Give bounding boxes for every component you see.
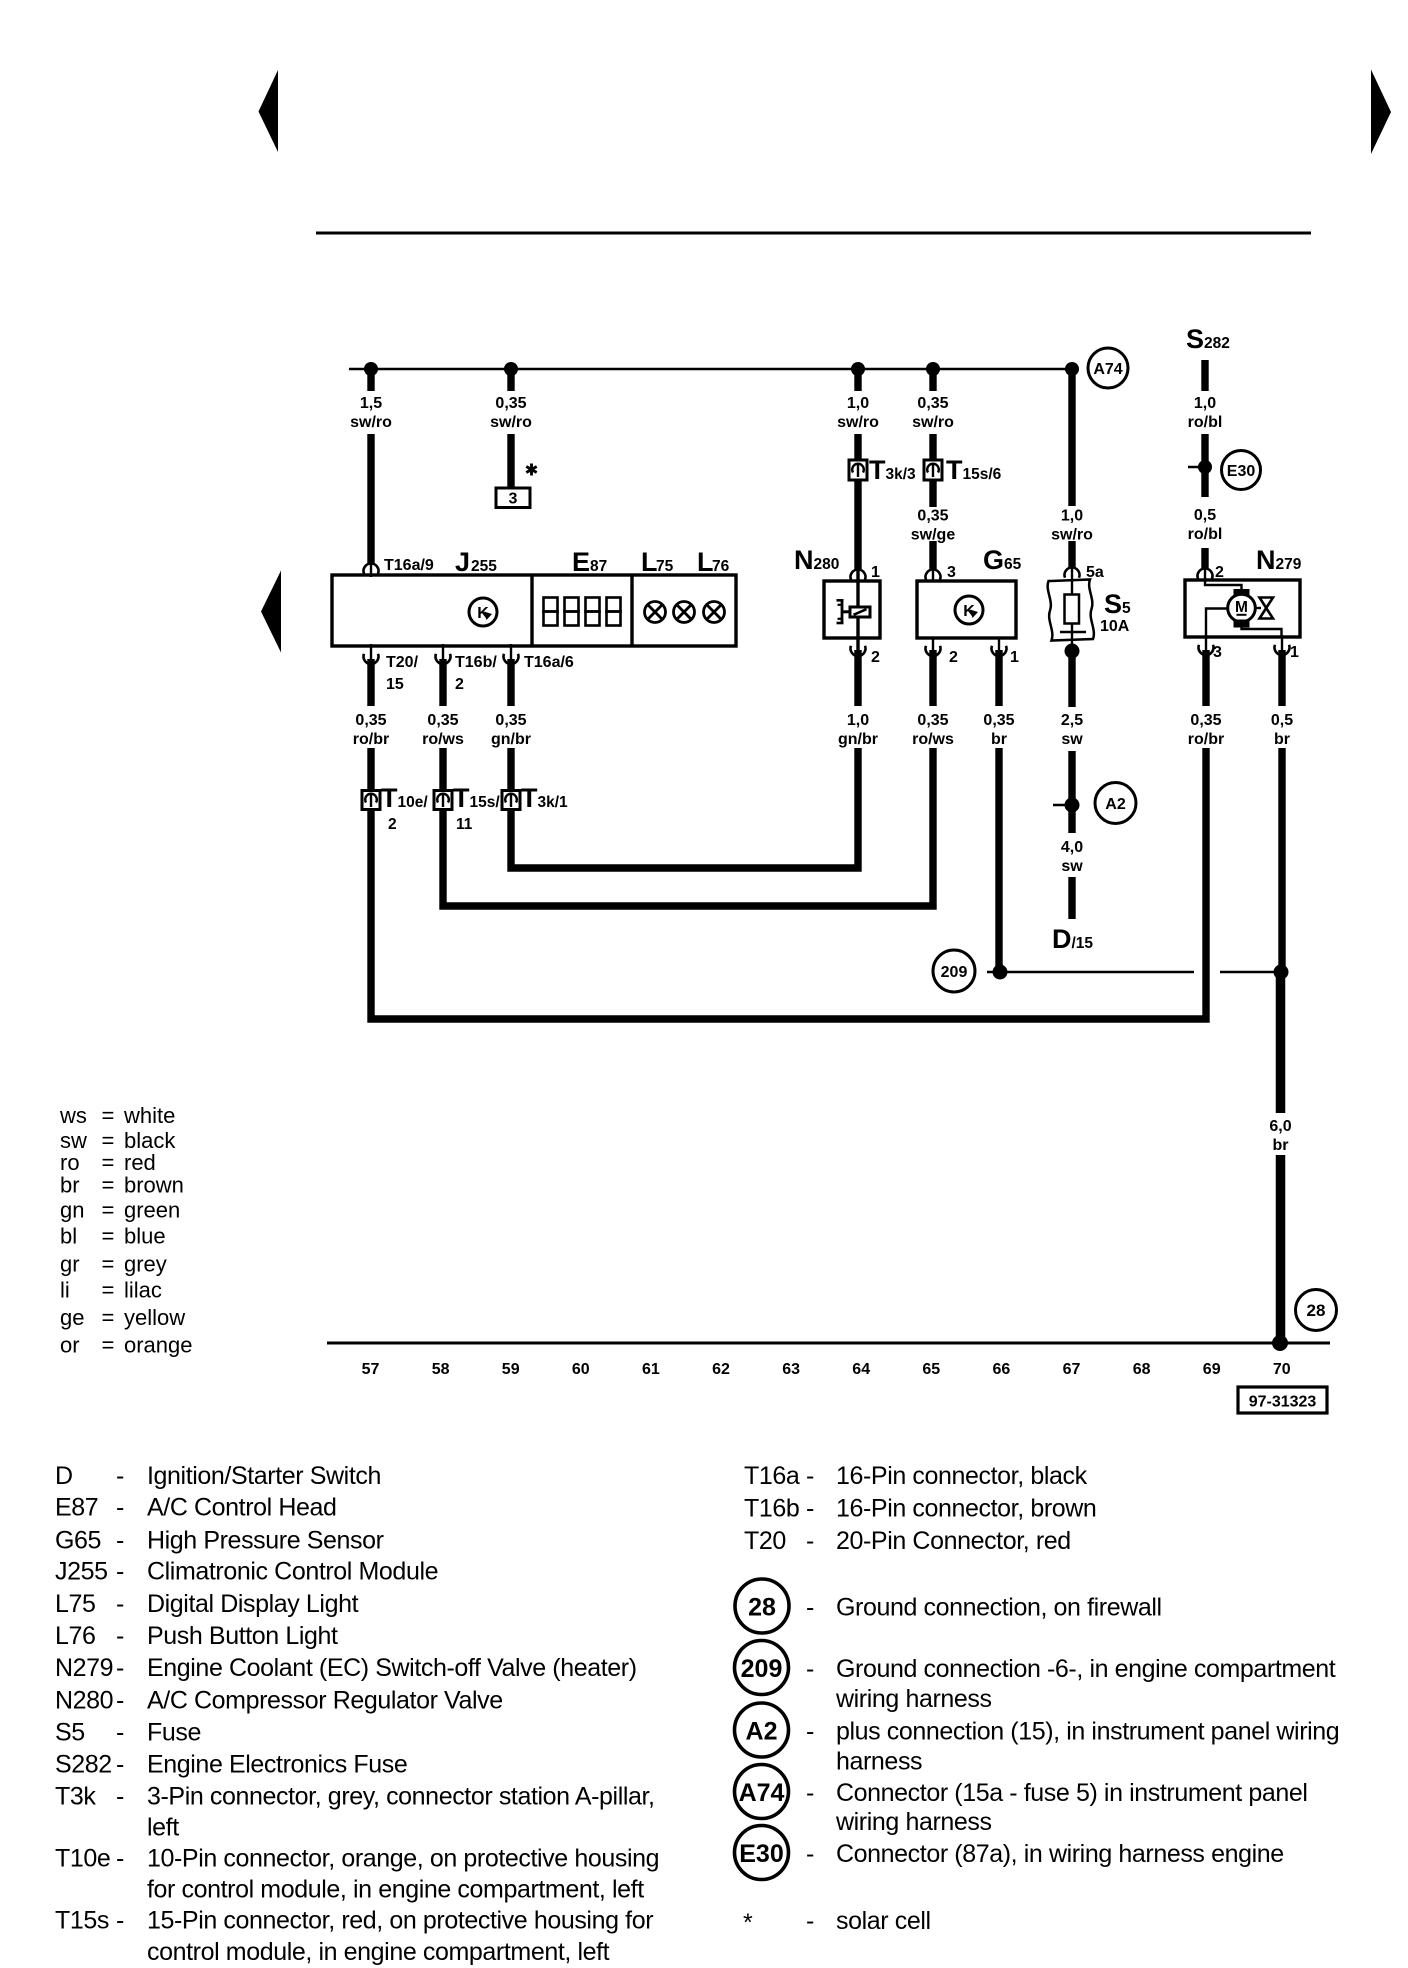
svg-text:Connector (15a - fuse 5) in in: Connector (15a - fuse 5) in instrument p… (836, 1779, 1308, 1807)
svg-text:br: br (1274, 731, 1290, 748)
svg-text:64: 64 (852, 1361, 870, 1378)
svg-text:sw: sw (1061, 858, 1083, 875)
svg-text:70: 70 (1273, 1361, 1291, 1378)
svg-text:white: white (123, 1103, 175, 1128)
svg-text:S5: S5 (55, 1719, 85, 1747)
svg-text:60: 60 (572, 1361, 590, 1378)
svg-text:A/C Control Head: A/C Control Head (147, 1494, 337, 1522)
svg-text:-: - (116, 1654, 124, 1682)
svg-text:63: 63 (782, 1361, 800, 1378)
svg-text:58: 58 (432, 1361, 450, 1378)
svg-text:control module, in engine comp: control module, in engine compartment, l… (147, 1938, 610, 1966)
svg-text:T10e: T10e (55, 1845, 110, 1873)
svg-text:16-Pin connector, brown: 16-Pin connector, brown (836, 1495, 1096, 1523)
svg-text:sw: sw (1061, 731, 1083, 748)
svg-text:6,0: 6,0 (1269, 1118, 1291, 1135)
svg-text:gn: gn (60, 1198, 84, 1223)
svg-text:2: 2 (388, 816, 397, 833)
svg-text:-: - (116, 1622, 124, 1650)
svg-text:L75: L75 (55, 1590, 96, 1618)
svg-text:S: S (1186, 324, 1204, 354)
svg-text:57: 57 (362, 1361, 380, 1378)
svg-text:28: 28 (748, 1594, 776, 1622)
svg-text:5: 5 (1122, 600, 1131, 617)
svg-text:3k/1: 3k/1 (538, 794, 569, 811)
svg-text:15s/6: 15s/6 (963, 466, 1002, 483)
svg-text:68: 68 (1133, 1361, 1151, 1378)
svg-text:=: = (102, 1252, 115, 1277)
svg-text:T: T (453, 783, 470, 813)
svg-text:ge: ge (60, 1305, 84, 1330)
svg-text:lilac: lilac (124, 1278, 162, 1303)
svg-text:G65: G65 (55, 1527, 101, 1555)
svg-text:Climatronic Control Module: Climatronic Control Module (147, 1558, 438, 1586)
svg-text:D: D (55, 1462, 73, 1490)
svg-text:280: 280 (814, 556, 840, 573)
svg-text:A74: A74 (1093, 361, 1122, 378)
svg-text:T: T (521, 783, 538, 813)
svg-text:28: 28 (1307, 1301, 1326, 1320)
svg-text:-: - (116, 1558, 124, 1586)
svg-text:N279: N279 (55, 1654, 113, 1682)
svg-text:=: = (102, 1278, 115, 1303)
svg-text:bl: bl (60, 1224, 77, 1249)
svg-text:ro/ws: ro/ws (422, 731, 464, 748)
svg-text:-: - (116, 1845, 124, 1873)
svg-text:3k/3: 3k/3 (886, 466, 917, 483)
svg-text:S282: S282 (55, 1751, 112, 1779)
svg-text:209: 209 (941, 964, 968, 981)
svg-text:T16a/6: T16a/6 (524, 654, 574, 671)
svg-text:E: E (572, 547, 590, 577)
svg-text:gr: gr (60, 1252, 80, 1277)
svg-text:T15s: T15s (55, 1907, 109, 1935)
svg-text:ro: ro (60, 1150, 80, 1175)
svg-text:sw/ro: sw/ro (912, 414, 954, 431)
svg-text:67: 67 (1063, 1361, 1081, 1378)
svg-text:sw/ro: sw/ro (490, 414, 532, 431)
svg-text:0,5: 0,5 (1271, 712, 1293, 729)
svg-text:-: - (116, 1751, 124, 1779)
svg-text:or: or (60, 1333, 80, 1358)
svg-text:-: - (806, 1462, 814, 1490)
svg-text:Connector (87a), in wiring har: Connector (87a), in wiring harness engin… (836, 1840, 1284, 1868)
svg-text:=: = (102, 1305, 115, 1330)
svg-text:75: 75 (656, 558, 674, 575)
svg-text:66: 66 (993, 1361, 1011, 1378)
svg-text:Digital Display Light: Digital Display Light (147, 1590, 359, 1618)
svg-text:M: M (1235, 599, 1248, 616)
svg-text:=: = (102, 1173, 115, 1198)
svg-text:E30: E30 (739, 1840, 783, 1868)
svg-text:10-Pin connector, orange, on p: 10-Pin connector, orange, on protective … (147, 1845, 659, 1873)
svg-text:grey: grey (124, 1252, 167, 1277)
svg-text:=: = (102, 1224, 115, 1249)
svg-text:=: = (102, 1333, 115, 1358)
svg-text:plus connection (15), in instr: plus connection (15), in instrument pane… (836, 1718, 1339, 1746)
svg-text:5a: 5a (1086, 564, 1104, 581)
svg-text:-: - (116, 1590, 124, 1618)
svg-text:J: J (455, 547, 470, 577)
svg-text:ro/bl: ro/bl (1188, 526, 1223, 543)
svg-text:T3k: T3k (55, 1783, 96, 1811)
svg-text:A2: A2 (1105, 796, 1126, 813)
svg-text:=: = (102, 1150, 115, 1175)
svg-text:J255: J255 (55, 1558, 108, 1586)
svg-text:br: br (1273, 1137, 1289, 1154)
svg-text:16-Pin connector, black: 16-Pin connector, black (836, 1462, 1088, 1490)
svg-text:1,0: 1,0 (847, 395, 869, 412)
svg-text:gn/br: gn/br (491, 731, 531, 748)
svg-text:-: - (806, 1527, 814, 1555)
svg-text:-: - (806, 1779, 814, 1807)
svg-text:sw/ro: sw/ro (837, 414, 879, 431)
svg-text:N: N (794, 545, 814, 575)
svg-text:209: 209 (741, 1655, 783, 1683)
svg-text:solar cell: solar cell (836, 1907, 931, 1935)
svg-text:2,5: 2,5 (1061, 712, 1083, 729)
svg-text:-: - (806, 1718, 814, 1746)
svg-text:15s/: 15s/ (470, 794, 501, 811)
svg-text:87: 87 (590, 558, 607, 575)
svg-text:1: 1 (1290, 644, 1299, 661)
svg-text:T: T (869, 455, 886, 485)
svg-text:E87: E87 (55, 1494, 98, 1522)
svg-text:2: 2 (871, 649, 880, 666)
svg-text:T16b: T16b (744, 1495, 799, 1523)
svg-text:T16b/: T16b/ (455, 654, 497, 671)
svg-text:62: 62 (712, 1361, 730, 1378)
svg-text:20-Pin Connector, red: 20-Pin Connector, red (836, 1527, 1071, 1555)
svg-text:3: 3 (947, 564, 956, 581)
svg-text:2: 2 (1215, 564, 1224, 581)
svg-text:3: 3 (509, 491, 518, 508)
svg-text:65: 65 (922, 1361, 940, 1378)
svg-text:Push Button Light: Push Button Light (147, 1622, 338, 1650)
svg-text:65: 65 (1004, 556, 1022, 573)
svg-text:-: - (116, 1527, 124, 1555)
svg-text:1,0: 1,0 (847, 712, 869, 729)
svg-text:-: - (116, 1687, 124, 1715)
svg-text:Ground connection -6-, in engi: Ground connection -6-, in engine compart… (836, 1655, 1336, 1683)
svg-text:E30: E30 (1227, 463, 1256, 480)
svg-text:0,35: 0,35 (495, 395, 526, 412)
svg-text:0,5: 0,5 (1194, 507, 1216, 524)
svg-text:br: br (991, 731, 1007, 748)
svg-text:A2: A2 (746, 1718, 778, 1746)
svg-text:10e/: 10e/ (398, 794, 429, 811)
svg-text:Ignition/Starter Switch: Ignition/Starter Switch (147, 1462, 381, 1490)
svg-text:T: T (381, 783, 398, 813)
svg-text:G: G (983, 545, 1004, 575)
svg-text:2: 2 (949, 649, 958, 666)
svg-text:97-31323: 97-31323 (1249, 1394, 1317, 1411)
svg-text:282: 282 (1204, 335, 1230, 352)
svg-text:T16a/9: T16a/9 (384, 557, 434, 574)
svg-text:Engine Coolant (EC) Switch-off: Engine Coolant (EC) Switch-off Valve (he… (147, 1654, 637, 1682)
svg-text:orange: orange (124, 1333, 193, 1358)
svg-text:T20/: T20/ (386, 654, 419, 671)
svg-text:-: - (116, 1462, 124, 1490)
svg-text:-: - (806, 1840, 814, 1868)
svg-text:0,35: 0,35 (1190, 712, 1221, 729)
svg-text:Ground connection, on firewall: Ground connection, on firewall (836, 1594, 1162, 1622)
svg-text:1,0: 1,0 (1061, 508, 1083, 525)
svg-text:wiring harness: wiring harness (835, 1685, 992, 1713)
svg-text:59: 59 (502, 1361, 520, 1378)
svg-text:brown: brown (124, 1173, 184, 1198)
svg-text:1: 1 (871, 564, 880, 581)
svg-text:S: S (1104, 589, 1122, 619)
svg-text:0,35: 0,35 (917, 395, 948, 412)
svg-text:0,35: 0,35 (495, 712, 526, 729)
svg-text:L76: L76 (55, 1622, 96, 1650)
svg-text:0,35: 0,35 (917, 712, 948, 729)
svg-text:br: br (60, 1173, 80, 1198)
svg-text:/15: /15 (1072, 935, 1094, 952)
svg-text:76: 76 (712, 558, 730, 575)
svg-text:255: 255 (471, 558, 497, 575)
svg-text:left: left (147, 1814, 179, 1842)
svg-text:-: - (806, 1495, 814, 1523)
svg-text:D: D (1052, 924, 1072, 954)
svg-text:li: li (60, 1278, 70, 1303)
svg-text:10A: 10A (1100, 618, 1130, 635)
svg-text:1,5: 1,5 (360, 395, 382, 412)
svg-text:-: - (806, 1907, 814, 1935)
svg-text:15-Pin connector, red, on prot: 15-Pin connector, red, on protective hou… (147, 1907, 653, 1935)
svg-text:-: - (116, 1907, 124, 1935)
svg-text:15: 15 (386, 676, 404, 693)
svg-text:Engine Electronics Fuse: Engine Electronics Fuse (147, 1751, 407, 1779)
svg-text:sw/ro: sw/ro (1051, 527, 1093, 544)
svg-text:2: 2 (455, 676, 464, 693)
svg-text:High Pressure Sensor: High Pressure Sensor (147, 1527, 384, 1555)
svg-text:ro/ws: ro/ws (912, 731, 954, 748)
svg-text:1: 1 (1010, 649, 1019, 666)
svg-text:ro/br: ro/br (353, 731, 389, 748)
svg-text:ro/bl: ro/bl (1188, 414, 1223, 431)
svg-text:gn/br: gn/br (838, 731, 878, 748)
svg-text:3-Pin connector, grey, connect: 3-Pin connector, grey, connector station… (147, 1783, 655, 1811)
svg-text:A/C Compressor Regulator Valve: A/C Compressor Regulator Valve (147, 1687, 503, 1715)
svg-text:=: = (102, 1198, 115, 1223)
svg-text:yellow: yellow (124, 1305, 185, 1330)
svg-text:61: 61 (642, 1361, 660, 1378)
svg-text:-: - (806, 1655, 814, 1683)
svg-text:69: 69 (1203, 1361, 1221, 1378)
svg-text:ro/br: ro/br (1188, 731, 1224, 748)
svg-text:11: 11 (456, 816, 473, 833)
svg-text:0,35: 0,35 (355, 712, 386, 729)
svg-text:wiring harness: wiring harness (835, 1808, 992, 1836)
svg-text:T: T (946, 455, 963, 485)
svg-text:T16a: T16a (744, 1462, 800, 1490)
svg-text:green: green (124, 1198, 180, 1223)
svg-text:0,35: 0,35 (983, 712, 1014, 729)
svg-text:*: * (743, 1909, 753, 1937)
svg-text:sw/ge: sw/ge (911, 527, 956, 544)
svg-text:Fuse: Fuse (147, 1719, 201, 1747)
svg-text:T20: T20 (744, 1527, 786, 1555)
svg-text:N: N (1256, 545, 1276, 575)
svg-text:harness: harness (836, 1748, 922, 1776)
svg-text:3: 3 (1213, 644, 1222, 661)
svg-text:blue: blue (124, 1224, 166, 1249)
svg-text:sw/ro: sw/ro (350, 414, 392, 431)
svg-text:for control module, in engine: for control module, in engine compartmen… (147, 1876, 644, 1904)
svg-text:-: - (116, 1719, 124, 1747)
svg-text:4,0: 4,0 (1061, 839, 1083, 856)
svg-text:A74: A74 (739, 1779, 785, 1807)
svg-text:0,35: 0,35 (427, 712, 458, 729)
svg-text:1,0: 1,0 (1194, 395, 1216, 412)
svg-text:-: - (116, 1783, 124, 1811)
svg-text:N280: N280 (55, 1687, 113, 1715)
svg-text:red: red (124, 1150, 156, 1175)
svg-text:-: - (116, 1494, 124, 1522)
svg-text:279: 279 (1276, 556, 1302, 573)
svg-text:0,35: 0,35 (917, 508, 948, 525)
svg-text:ws: ws (59, 1103, 87, 1128)
svg-text:-: - (806, 1594, 814, 1622)
svg-text:=: = (102, 1103, 115, 1128)
